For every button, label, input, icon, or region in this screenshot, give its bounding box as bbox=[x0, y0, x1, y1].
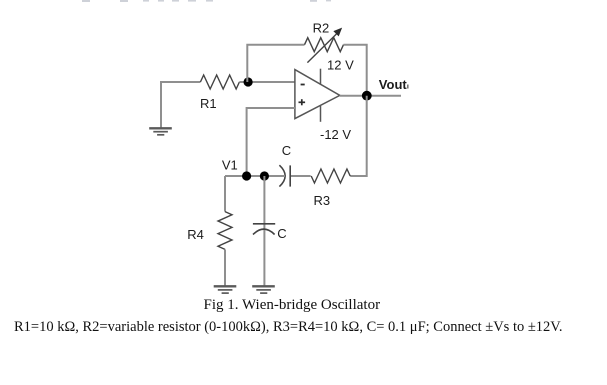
svg-text:C: C bbox=[277, 226, 286, 241]
cut-off text remnants at top edge bbox=[82, 0, 331, 2]
wire R2 right to output column bbox=[344, 45, 367, 96]
svg-text:R1: R1 bbox=[200, 96, 217, 111]
resistor R2 (variable) bbox=[305, 38, 344, 52]
svg-text:C: C bbox=[282, 143, 291, 158]
wiper arrow of R2 bbox=[307, 28, 341, 62]
wire V1 down to R4 bbox=[224, 176, 226, 212]
wire R4 to ground bbox=[224, 249, 226, 286]
resistor R1 bbox=[200, 75, 239, 89]
svg-text:R4: R4 bbox=[187, 227, 204, 242]
ground (left, input) bbox=[149, 128, 172, 135]
svg-text:R2: R2 bbox=[313, 20, 330, 35]
capacitor C (series) bbox=[279, 165, 290, 186]
svg-text:12 V: 12 V bbox=[327, 58, 354, 73]
wire op-amp output to Vout bbox=[340, 95, 401, 97]
svg-text:Fig 1. Wien-bridge Oscillator: Fig 1. Wien-bridge Oscillator bbox=[204, 297, 381, 313]
positive supply pin of U1 bbox=[320, 69, 322, 85]
wire V1 down to shunt capacitor bbox=[263, 176, 265, 230]
svg-text:-12 V: -12 V bbox=[320, 127, 351, 142]
resistor R3 bbox=[311, 169, 350, 183]
wire V1 node to capacitor C bbox=[225, 175, 285, 177]
wire Vout down to R3 bbox=[350, 96, 367, 176]
small mark after Vout bbox=[407, 85, 409, 89]
wire node up to R2 left bbox=[247, 45, 304, 82]
node junction R1/R2 (inverting input) bbox=[244, 77, 253, 86]
svg-text:R3: R3 bbox=[314, 193, 331, 208]
wire non-inverting input down to node V1 bbox=[247, 108, 295, 176]
resistor R4 bbox=[218, 212, 232, 250]
node Vout bbox=[362, 91, 372, 101]
wire R1 to inverting input bbox=[239, 81, 295, 83]
wire R3 to capacitor C plate bbox=[290, 175, 311, 177]
plus symbol at non-inverting input bbox=[299, 99, 306, 105]
wire ground to R1 bbox=[161, 82, 200, 128]
ground (below shunt capacitor) bbox=[252, 286, 275, 293]
ground (below R4) bbox=[214, 286, 237, 293]
negative supply pin of U1 bbox=[320, 106, 322, 122]
wire shunt capacitor to ground bbox=[263, 230, 265, 286]
capacitor C (shunt) bbox=[253, 224, 275, 235]
svg-text:Vout: Vout bbox=[379, 77, 408, 92]
op-amp U1 bbox=[295, 70, 340, 119]
node V1 junction right bbox=[260, 171, 269, 180]
node V1 junction left bbox=[242, 171, 251, 180]
svg-text:R1=10 kΩ, R2=variable resistor: R1=10 kΩ, R2=variable resistor (0-100kΩ)… bbox=[14, 319, 563, 335]
svg-text:V1: V1 bbox=[222, 158, 238, 173]
minus symbol at inverting input bbox=[301, 84, 305, 86]
